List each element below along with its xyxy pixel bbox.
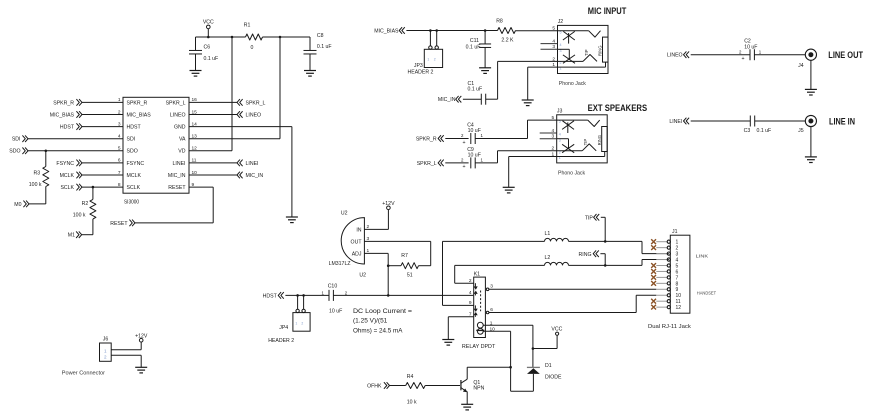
svg-text:4: 4	[560, 43, 562, 47]
svg-text:R4: R4	[407, 374, 414, 380]
wire collector	[466, 367, 468, 379]
wire relay pin 9 to L1 line	[443, 304, 474, 306]
svg-text:LINEI: LINEI	[669, 119, 682, 125]
relay contact pole 1	[474, 283, 476, 286]
wire	[445, 138, 468, 140]
wire emitter to ground	[466, 391, 468, 404]
wire HDST line	[285, 294, 329, 296]
svg-text:C3: C3	[744, 128, 751, 134]
svg-text:(1.25 V)/(51: (1.25 V)/(51	[353, 318, 388, 325]
svg-text:LINE OUT: LINE OUT	[828, 50, 863, 60]
svg-text:10 uF: 10 uF	[468, 128, 481, 134]
wire ADJ	[364, 252, 388, 254]
svg-text:DIODE: DIODE	[545, 374, 562, 380]
ground	[461, 403, 473, 405]
wire	[691, 54, 750, 56]
wire RESET to pin 9	[135, 222, 213, 224]
svg-text:JP3: JP3	[414, 63, 423, 69]
wire C4 to J3 pin 5	[475, 138, 527, 140]
svg-text:R2: R2	[82, 201, 89, 207]
svg-text:MIC_IN: MIC_IN	[438, 97, 456, 103]
svg-text:Phono Jack: Phono Jack	[559, 81, 587, 87]
svg-text:LINK: LINK	[696, 254, 709, 260]
svg-text:5: 5	[552, 26, 555, 32]
svg-text:51: 51	[407, 273, 413, 279]
wire	[754, 54, 805, 56]
svg-text:MIC INPUT: MIC INPUT	[588, 6, 627, 16]
wire OUT	[364, 240, 430, 242]
svg-text:MCLK: MCLK	[127, 173, 142, 179]
svg-text:C11: C11	[470, 38, 479, 44]
wire	[425, 385, 460, 387]
svg-text:R8: R8	[496, 19, 503, 25]
svg-text:2: 2	[552, 56, 555, 62]
J3 pin 4 stub	[540, 132, 557, 134]
inductor L2	[545, 262, 569, 265]
wire	[82, 186, 123, 188]
ground	[805, 88, 817, 90]
wire J3 pin 1 to ground	[509, 156, 557, 158]
power VCC symbol	[207, 25, 211, 29]
svg-text:J6: J6	[103, 337, 109, 343]
wire IN to +12V	[364, 228, 388, 230]
svg-text:Phono Jack: Phono Jack	[558, 171, 586, 177]
svg-text:SPKR_L: SPKR_L	[417, 161, 437, 167]
svg-text:14: 14	[192, 121, 198, 127]
svg-text:+: +	[462, 164, 465, 170]
svg-text:100 k: 100 k	[73, 213, 86, 219]
wire relay pin 10 coil	[483, 330, 510, 332]
connector J1 dual RJ-11 body	[670, 235, 690, 313]
wire MIC_BIAS rail	[406, 30, 497, 32]
ground	[479, 67, 491, 69]
capacitor C1	[480, 94, 482, 105]
svg-text:10 k: 10 k	[407, 400, 417, 406]
svg-text:J3: J3	[557, 108, 563, 114]
svg-text:+: +	[462, 140, 465, 146]
wire	[810, 60, 812, 89]
relay coil	[477, 322, 483, 328]
capacitor C10	[328, 290, 330, 301]
svg-text:10 uF: 10 uF	[468, 153, 481, 159]
capacitor C2	[749, 49, 751, 60]
J3 pin 3 stub	[540, 138, 557, 140]
J1 pin 1	[656, 241, 667, 243]
J2 break contact upper	[568, 33, 570, 44]
svg-text:1: 1	[295, 321, 297, 325]
svg-text:J4: J4	[798, 63, 804, 69]
svg-text:MIC_BIAS: MIC_BIAS	[374, 28, 399, 34]
wire	[810, 127, 812, 157]
svg-text:MIC_BIAS: MIC_BIAS	[50, 112, 75, 118]
wire	[82, 162, 123, 164]
svg-text:HEADER 2: HEADER 2	[408, 69, 434, 75]
svg-text:TIP: TIP	[583, 139, 588, 146]
pin 6 contact	[486, 311, 489, 314]
wire relay pin 6 to J1 pin 10	[489, 312, 636, 314]
ground	[304, 70, 316, 72]
connector J3 phono jack body	[557, 115, 608, 163]
svg-text:C8: C8	[317, 33, 324, 39]
J2 tip contact	[558, 30, 589, 32]
svg-text:DC Loop Current =: DC Loop Current =	[353, 308, 412, 315]
ground	[503, 186, 515, 188]
svg-text:IN: IN	[356, 227, 361, 233]
svg-text:+12V: +12V	[135, 333, 148, 339]
port MIC_IN	[237, 172, 240, 179]
svg-text:U2: U2	[341, 210, 348, 216]
capacitor C9	[470, 157, 472, 168]
svg-text:RING: RING	[598, 46, 603, 56]
svg-text:HEADER 2: HEADER 2	[268, 338, 294, 344]
pin 3 contact	[486, 288, 489, 291]
svg-text:HDST: HDST	[60, 125, 75, 131]
svg-text:10 uF: 10 uF	[744, 45, 757, 51]
wire	[755, 120, 806, 122]
svg-text:J5: J5	[798, 128, 804, 134]
J1 pin 8	[656, 282, 667, 284]
wire J2 pin 1 to ground	[528, 66, 558, 68]
IC SI3000	[123, 97, 189, 193]
svg-text:13: 13	[192, 134, 198, 140]
diode D1	[532, 349, 534, 368]
svg-text:R3: R3	[34, 170, 41, 176]
J3 sleeve pin 1 wire	[557, 156, 605, 158]
svg-text:Dual RJ-11 Jack: Dual RJ-11 Jack	[648, 324, 691, 330]
wire	[445, 162, 468, 164]
svg-text:VD: VD	[178, 149, 185, 155]
wire relay pin 1 coil to VCC node	[483, 324, 533, 326]
svg-text:+12V: +12V	[382, 201, 395, 207]
power +12V symbol	[139, 338, 143, 342]
svg-text:0.1 uF: 0.1 uF	[466, 45, 481, 51]
svg-text:LINE IN: LINE IN	[829, 116, 855, 126]
wire VCC to coil node	[556, 335, 558, 348]
port SPKR_L	[237, 99, 240, 106]
wire	[691, 120, 751, 122]
svg-text:OFHK: OFHK	[367, 383, 382, 389]
svg-text:0.1 uF: 0.1 uF	[757, 128, 772, 134]
wire GND pin to ground	[189, 126, 292, 128]
wire relay pin 7 to ground	[448, 316, 473, 318]
J1 pin 11	[656, 300, 667, 302]
svg-text:2.2 K: 2.2 K	[501, 37, 514, 43]
svg-text:RESET: RESET	[168, 185, 186, 191]
svg-text:L1: L1	[545, 231, 551, 237]
resistor R2	[92, 187, 94, 199]
wire	[390, 385, 406, 387]
svg-text:5: 5	[552, 115, 555, 121]
svg-text:RELAY DPDT: RELAY DPDT	[462, 344, 496, 350]
wire	[569, 240, 643, 242]
svg-text:SPKR_L: SPKR_L	[246, 100, 266, 106]
wire relay pin 3 to J1 pin 9	[489, 288, 656, 290]
svg-text:JP4: JP4	[279, 325, 288, 331]
port LINEI	[237, 160, 240, 167]
svg-text:ADJ: ADJ	[352, 251, 362, 257]
svg-text:0.1 uF: 0.1 uF	[204, 56, 219, 62]
svg-text:1: 1	[427, 58, 429, 62]
svg-text:MIC_BIAS: MIC_BIAS	[127, 112, 152, 118]
svg-text:SCLK: SCLK	[127, 185, 141, 191]
inductor L1	[545, 238, 569, 241]
wire J6 pin 2 to ground	[111, 354, 141, 356]
svg-text:HDST: HDST	[127, 125, 142, 131]
wire	[463, 98, 481, 100]
svg-text:0.1 uF: 0.1 uF	[468, 86, 483, 92]
wire	[82, 234, 93, 236]
power VCC symbol	[556, 332, 559, 335]
svg-text:NPN: NPN	[473, 386, 484, 392]
svg-text:100 k: 100 k	[29, 182, 42, 188]
svg-text:M1: M1	[68, 233, 75, 239]
port LINEO	[237, 111, 240, 118]
wire RING	[600, 253, 605, 255]
svg-text:L2: L2	[545, 255, 551, 261]
svg-text:FSYNC: FSYNC	[56, 161, 74, 167]
svg-text:0.1 uF: 0.1 uF	[317, 44, 332, 50]
svg-text:SPKR_R: SPKR_R	[127, 100, 148, 106]
svg-text:MIC_IN: MIC_IN	[168, 173, 186, 179]
svg-text:LINEI: LINEI	[246, 161, 259, 167]
wire J6 pin 1 to +12V	[111, 349, 141, 351]
jack J4	[805, 49, 816, 60]
svg-text:SI3000: SI3000	[124, 200, 139, 206]
svg-text:SDO: SDO	[127, 149, 138, 155]
wire VCC rail	[196, 36, 246, 38]
wire TIP	[601, 216, 605, 218]
svg-text:Power Connector: Power Connector	[62, 370, 105, 376]
svg-text:SPKR_L: SPKR_L	[166, 100, 186, 106]
svg-text:SDI: SDI	[127, 137, 136, 143]
svg-text:OUT: OUT	[351, 239, 363, 245]
svg-text:EXT SPEAKERS: EXT SPEAKERS	[588, 103, 648, 113]
svg-text:VCC: VCC	[203, 20, 214, 26]
svg-text:12: 12	[192, 146, 198, 152]
J1 pin 10	[656, 294, 667, 296]
resistor R3	[45, 151, 47, 167]
wire	[82, 101, 123, 103]
ground	[805, 156, 817, 158]
wire	[29, 203, 46, 205]
wire	[28, 138, 123, 140]
regulator U2 LM317LZ	[341, 218, 364, 264]
ground	[135, 366, 147, 368]
J2 sleeve	[603, 37, 609, 62]
wire C9 to J3 pin 2	[475, 162, 497, 164]
J1 pin 3	[656, 253, 667, 255]
capacitor C3	[749, 116, 751, 127]
J2 ring contact	[558, 48, 570, 50]
J1 pin 6	[656, 270, 667, 272]
svg-text:12: 12	[676, 305, 682, 311]
J3 ring contact	[557, 138, 569, 140]
svg-text:LINEO: LINEO	[170, 112, 186, 118]
capacitor C4	[470, 133, 472, 144]
svg-text:SCLK: SCLK	[60, 185, 74, 191]
svg-text:HANDSET: HANDSET	[697, 290, 716, 296]
capacitor C11	[484, 31, 486, 45]
ground	[190, 70, 202, 72]
capacitor C8	[309, 37, 311, 51]
relay K1 body	[474, 277, 486, 337]
J2 sleeve pin 1 wire	[558, 66, 606, 68]
J1 pin 2	[656, 247, 667, 249]
ground	[442, 339, 454, 341]
svg-text:FSYNC: FSYNC	[127, 161, 145, 167]
wire	[569, 264, 643, 266]
svg-text:SDI: SDI	[12, 137, 21, 143]
wire diode anode	[511, 390, 534, 392]
resistor R8	[498, 28, 516, 34]
svg-text:2: 2	[552, 146, 555, 152]
header JP3	[429, 31, 431, 46]
svg-text:RING: RING	[597, 135, 602, 145]
connector J6 power	[100, 343, 112, 361]
wire	[516, 30, 558, 32]
svg-text:MIC_IN: MIC_IN	[246, 173, 264, 179]
connector J2 phono jack body	[558, 25, 609, 73]
power +12V symbol	[387, 206, 391, 210]
wire L1 line	[443, 240, 545, 242]
ground	[522, 99, 534, 101]
transistor Q1 NPN	[460, 380, 462, 390]
svg-text:HDST: HDST	[263, 294, 278, 300]
wire VD to filter	[189, 150, 232, 152]
svg-text:LM317LZ: LM317LZ	[329, 261, 351, 267]
svg-text:4: 4	[469, 290, 472, 296]
wire LINEI	[189, 162, 237, 164]
svg-text:U2: U2	[359, 272, 366, 278]
header JP4	[297, 295, 299, 309]
svg-text:SPKR_R: SPKR_R	[416, 136, 437, 142]
J2 pin 4 stub	[541, 43, 558, 45]
svg-text:SPKR_R: SPKR_R	[53, 100, 74, 106]
resistor R1	[246, 34, 263, 40]
svg-text:D1: D1	[545, 363, 552, 369]
svg-text:RESET: RESET	[110, 221, 128, 227]
svg-text:VCC: VCC	[551, 327, 562, 333]
svg-text:GND: GND	[174, 125, 186, 131]
wire	[82, 126, 123, 128]
svg-text:J1: J1	[672, 229, 678, 235]
svg-text:0: 0	[251, 45, 254, 51]
wire	[82, 174, 123, 176]
wire LINEO	[189, 114, 237, 116]
wire MIC_IN	[189, 174, 237, 176]
resistor R7	[388, 265, 401, 267]
ground	[286, 216, 298, 218]
J1 pin 9	[656, 288, 667, 290]
J3 break contact upper	[567, 122, 569, 133]
svg-text:SDO: SDO	[9, 149, 20, 155]
svg-text:LINEO: LINEO	[246, 112, 262, 118]
svg-text:M0: M0	[14, 202, 21, 208]
jack J5	[805, 115, 816, 126]
svg-text:4: 4	[559, 133, 561, 137]
svg-text:2: 2	[434, 58, 436, 62]
J2 pin 3 stub	[541, 48, 558, 50]
svg-text:TIP: TIP	[584, 49, 589, 56]
wire SPKR_L	[189, 101, 237, 103]
J3 sleeve	[602, 127, 608, 152]
svg-text:VA: VA	[179, 137, 186, 143]
svg-text:LINEO: LINEO	[667, 53, 683, 59]
relay contact pole 2	[474, 305, 476, 308]
resistor R4	[406, 383, 426, 389]
wire VA to filter	[189, 138, 280, 140]
svg-text:R1: R1	[244, 23, 251, 29]
svg-text:MCLK: MCLK	[60, 173, 75, 179]
svg-text:Ohms) = 24.5 mA: Ohms) = 24.5 mA	[353, 327, 403, 334]
node SCLK junction	[92, 186, 95, 189]
svg-text:J2: J2	[558, 19, 564, 25]
relay linkage dashed	[480, 291, 482, 312]
capacitor C6	[195, 37, 197, 51]
wire L2 line	[455, 264, 545, 266]
wire	[82, 114, 123, 116]
svg-text:2: 2	[301, 321, 303, 325]
svg-text:10 uF: 10 uF	[329, 309, 342, 315]
wire	[333, 294, 473, 296]
J1 pin 4	[656, 259, 667, 261]
wire relay pin 2 to L2	[455, 282, 474, 284]
svg-text:LINEI: LINEI	[173, 161, 186, 167]
J3 tip contact	[557, 119, 588, 121]
svg-text:+: +	[741, 56, 744, 62]
J1 pin 5	[656, 265, 667, 267]
svg-text:3: 3	[490, 284, 493, 290]
svg-text:R7: R7	[401, 253, 408, 259]
svg-text:C6: C6	[204, 44, 211, 50]
svg-text:1: 1	[104, 348, 107, 353]
svg-text:2: 2	[104, 355, 107, 360]
wire to J2 pin 2	[486, 98, 498, 100]
svg-text:C10: C10	[328, 284, 338, 290]
svg-text:RING: RING	[579, 252, 592, 258]
wire	[28, 150, 123, 152]
svg-text:K1: K1	[474, 272, 480, 278]
J1 pin 7	[656, 276, 667, 278]
J1 pin 12	[656, 306, 667, 308]
svg-text:TIP: TIP	[585, 215, 594, 221]
